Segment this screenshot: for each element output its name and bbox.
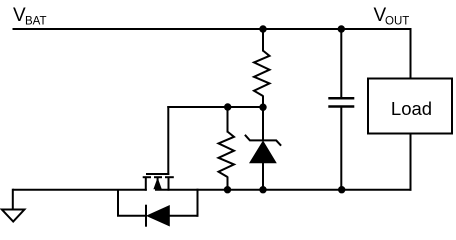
resistor R2 top lead <box>227 107 229 133</box>
capacitor C1 top plate <box>328 97 354 100</box>
ground <box>2 189 25 222</box>
zener diode D1 anode lead <box>262 162 264 190</box>
resistor R1 <box>254 51 270 96</box>
svg-text:BAT: BAT <box>25 16 47 28</box>
transistor Q1 right channel bar <box>165 176 174 178</box>
node bottom rail zener junction <box>259 186 266 193</box>
node bottom rail R2 junction <box>224 186 231 193</box>
wire body diode bottom left <box>117 215 146 217</box>
wire gate lead down <box>167 106 169 175</box>
diode D2 cathode bar <box>145 205 147 227</box>
resistor R2 bottom lead <box>227 177 229 190</box>
transistor Q1 middle channel bar <box>154 176 162 178</box>
node VOUT label <box>374 5 410 28</box>
wire ground rail left <box>13 189 147 191</box>
wire body diode left drop <box>117 190 119 216</box>
wire top rail VBAT to VOUT <box>13 28 411 30</box>
transistor Q1 left channel bar <box>143 176 151 178</box>
resistor R1 bottom lead <box>262 96 264 108</box>
wire node A horizontal (gate to R1 bottom) <box>167 106 263 108</box>
node top rail R1 junction <box>259 25 266 32</box>
wire bottom rail <box>155 189 412 191</box>
wire Load bottom down to bottom rail <box>410 134 412 191</box>
node A zener junction <box>259 104 266 111</box>
transistor Q1 gate plate <box>146 173 169 175</box>
resistor R2 <box>219 132 235 177</box>
wire VOUT down to Load top <box>410 28 412 79</box>
svg-text:Load: Load <box>391 98 432 119</box>
diode D2 triangle <box>147 206 169 226</box>
zener diode D1 triangle <box>250 141 276 162</box>
load box <box>368 79 452 134</box>
transistor Q1 body terminal <box>157 177 159 190</box>
node top rail capacitor junction <box>338 25 345 32</box>
transistor Q1 source terminal <box>145 177 147 191</box>
capacitor C1 top lead <box>340 29 342 98</box>
transistor Q1 drain terminal <box>168 177 170 191</box>
node A R2 junction <box>224 103 231 110</box>
resistor R1 top lead <box>262 29 264 52</box>
wire body diode bottom right <box>168 215 197 217</box>
transistor Q1 body arrow <box>154 179 161 189</box>
capacitor C1 bottom plate <box>328 105 354 108</box>
node VBAT label <box>13 5 47 28</box>
svg-text:OUT: OUT <box>385 16 409 28</box>
wire body diode right riser <box>197 189 199 217</box>
zener diode D1 cathode lead <box>262 107 264 140</box>
zener diode D1 cathode bar <box>245 135 281 146</box>
node bottom rail capacitor junction <box>338 186 345 193</box>
capacitor C1 bottom lead <box>340 107 342 190</box>
